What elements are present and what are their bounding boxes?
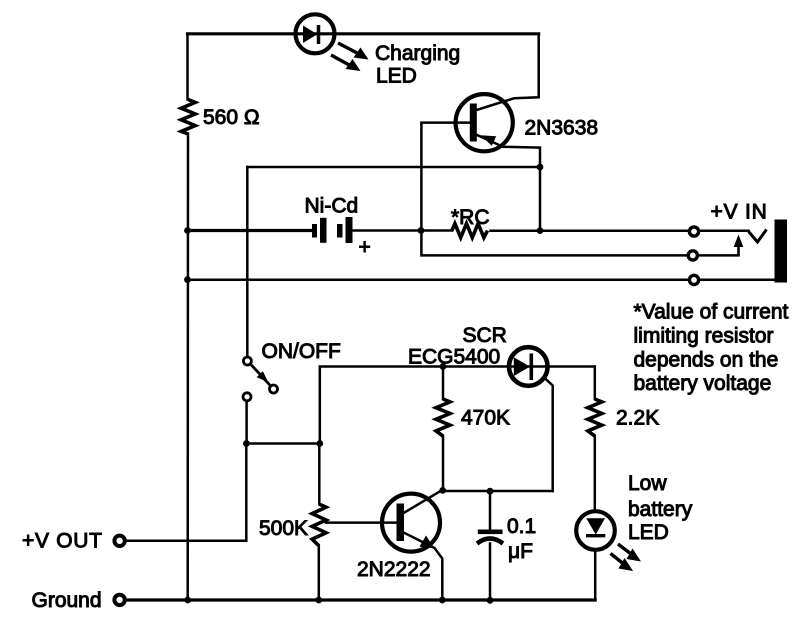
svg-text:Ni-Cd: Ni-Cd bbox=[305, 195, 359, 218]
label 470K bbox=[461, 407, 510, 430]
label *RC bbox=[451, 206, 490, 229]
wire gate rail y=491 bbox=[443, 490, 553, 493]
terminal Ground bbox=[114, 595, 124, 605]
label +V OUT bbox=[22, 530, 103, 553]
wire 500K top lead bbox=[318, 444, 321, 505]
svg-text:560 Ω: 560 Ω bbox=[203, 106, 260, 129]
wire 470K hanger riser bbox=[442, 367, 445, 400]
battery Ni-Cd cell2 short plate bbox=[337, 224, 343, 238]
svg-text:+: + bbox=[359, 236, 371, 259]
wire 2N2222 emitter diagonal and drop to ground bbox=[405, 533, 443, 600]
junction emitter drop / y167 rail bbox=[537, 164, 544, 171]
svg-text:2.2K: 2.2K bbox=[616, 407, 659, 430]
label SCR bbox=[463, 324, 507, 347]
wire 2.2K drop from SCR rail bbox=[594, 367, 597, 400]
resistor *RC zigzag bbox=[452, 224, 488, 238]
switch ON/OFF top contact bbox=[243, 357, 251, 365]
terminal +V IN top bbox=[689, 227, 698, 236]
svg-text:+V IN: +V IN bbox=[711, 201, 768, 224]
junction capacitor / gate rail bbox=[487, 488, 494, 495]
charging LED light arrow 1 bbox=[338, 43, 369, 60]
switch ON/OFF bottom contact bbox=[243, 393, 251, 401]
junction 2N2222 emitter / ground rail bbox=[439, 597, 446, 604]
svg-text:μF: μF bbox=[508, 540, 533, 563]
label Ground bbox=[32, 589, 102, 612]
wire 500K bottom lead to ground bbox=[318, 546, 321, 600]
label 560 ohm bbox=[203, 106, 260, 129]
resistor 560 ohm zigzag bbox=[181, 100, 195, 135]
label 2N2222 bbox=[357, 558, 431, 581]
wire +V OUT lead right then up to junction bbox=[127, 444, 247, 541]
charging LED diode triangle bbox=[303, 26, 317, 44]
wire 470K lower lead to gate rail bbox=[442, 436, 445, 491]
resistor 470K zigzag bbox=[436, 399, 450, 436]
transistor 2N2222 base bar bbox=[397, 504, 405, 542]
wire switch bottom contact down to +V OUT junction bbox=[245, 401, 248, 443]
wire battery feed thick segment bbox=[188, 229, 312, 232]
junction ground rail / left riser bbox=[184, 597, 191, 604]
label ECG5400 bbox=[408, 346, 500, 369]
svg-text:ON/OFF: ON/OFF bbox=[262, 340, 341, 363]
battery Ni-Cd cell1 long plate bbox=[320, 218, 327, 243]
SCR cathode bar bbox=[529, 354, 533, 381]
svg-text:*RC: *RC bbox=[451, 206, 490, 229]
wire top rail from left riser to collector drop bbox=[188, 32, 539, 35]
junction battery rail / left riser bbox=[184, 227, 191, 234]
label battery plus bbox=[359, 236, 371, 259]
battery Ni-Cd cell1 short plate bbox=[312, 224, 317, 238]
svg-text:battery: battery bbox=[628, 498, 693, 521]
note about current limiting resistor bbox=[634, 301, 789, 396]
label Low battery LED bbox=[628, 472, 693, 544]
label +V IN bbox=[711, 201, 768, 224]
svg-text:battery voltage: battery voltage bbox=[634, 372, 772, 395]
svg-text:SCR: SCR bbox=[463, 324, 507, 347]
battery Ni-Cd cell2 long plate bbox=[346, 217, 353, 243]
wire 2N2222 collector diagonal to gate rail junction bbox=[405, 490, 443, 513]
switch ON/OFF blade end contact bbox=[270, 385, 278, 393]
jack tip spring arrow (up) bbox=[734, 235, 744, 256]
label 2N3638 bbox=[525, 117, 599, 140]
svg-text:500K: 500K bbox=[259, 517, 308, 540]
svg-text:2N2222: 2N2222 bbox=[357, 558, 431, 581]
transistor 2N2222 circle bbox=[382, 494, 440, 552]
junction switch drop / +V OUT riser bbox=[243, 440, 250, 447]
SCR anode triangle bbox=[514, 357, 530, 376]
wire left riser upper (top rail to 560 ohm) bbox=[186, 34, 189, 100]
wire ground rail bbox=[127, 598, 596, 601]
wire SCR gate diagonal and drop bbox=[544, 377, 553, 491]
junction collector / gate rail bbox=[439, 487, 446, 494]
label 0.1 uF bbox=[507, 515, 536, 563]
label 2.2K bbox=[616, 407, 659, 430]
svg-text:limiting resistor: limiting resistor bbox=[634, 325, 774, 348]
svg-text:LED: LED bbox=[628, 521, 669, 544]
svg-text:depends on the: depends on the bbox=[634, 348, 779, 371]
label Charging LED bbox=[375, 42, 460, 88]
wire collector riser of 2N3638 bbox=[477, 34, 539, 110]
transistor 2N2222 emitter arrow (NPN, points out) bbox=[420, 536, 435, 549]
wire battery to RC junction bbox=[353, 229, 453, 232]
svg-text:0.1: 0.1 bbox=[507, 515, 536, 538]
wire y=443.5 link bbox=[247, 442, 320, 445]
wire 500K wiper to 2N2222 base bbox=[326, 521, 396, 524]
wire 2N3638 base drop: left then down then right to +V IN middle terminal bbox=[421, 123, 738, 256]
svg-text:+V OUT: +V OUT bbox=[22, 530, 103, 553]
transistor 2N3638 emitter arrow (PNP, points toward base) bbox=[481, 135, 497, 146]
svg-text:ECG5400: ECG5400 bbox=[408, 346, 500, 369]
resistor 2.2K zigzag bbox=[588, 399, 602, 436]
wire riser from y=167 rail down to switch top contact bbox=[246, 167, 249, 356]
wire capacitor top lead bbox=[489, 491, 492, 530]
wire riser from 443.5 up to SCR rail then right bbox=[320, 367, 595, 444]
switch ON/OFF blade with arrow bbox=[251, 365, 270, 386]
junction 470K / SCR rail bbox=[440, 363, 447, 370]
label Ni-Cd bbox=[305, 195, 359, 218]
junction base drop / battery rail bbox=[418, 227, 425, 234]
low battery LED light arrow 1 bbox=[618, 544, 641, 562]
wire capacitor bottom lead bbox=[489, 544, 492, 601]
svg-text:Low: Low bbox=[628, 472, 667, 495]
low battery LED diode triangle bbox=[586, 518, 605, 534]
svg-text:2N3638: 2N3638 bbox=[525, 117, 599, 140]
wire 2.2K to low battery LED bbox=[594, 436, 597, 510]
SCR ECG5400 circle bbox=[509, 347, 548, 386]
low battery LED cathode bar bbox=[586, 534, 605, 537]
jack spring contact V notch bbox=[749, 230, 767, 243]
terminal +V IN bottom bbox=[689, 275, 698, 284]
low battery LED light arrow 2 bbox=[611, 554, 634, 572]
label ON/OFF bbox=[262, 340, 341, 363]
wire low battery LED to ground rail bbox=[490, 551, 595, 600]
capacitor 0.1uF curved bottom plate bbox=[477, 539, 503, 544]
wire left riser mid (560 ohm down to ground rail) bbox=[186, 134, 189, 600]
wire base rail of 2N3638 at y=167 bbox=[247, 166, 540, 169]
transistor 2N3638 base bar bbox=[470, 104, 477, 142]
capacitor 0.1uF top plate bbox=[478, 530, 503, 535]
jack body black bar bbox=[775, 220, 788, 283]
wire RC to +V IN top terminal and jack tip bbox=[491, 229, 749, 232]
label 500K bbox=[259, 517, 308, 540]
svg-text:Ground: Ground bbox=[32, 589, 102, 612]
svg-text:LED: LED bbox=[376, 65, 417, 88]
low battery LED circle bbox=[576, 511, 615, 550]
charging LED circle bbox=[296, 14, 335, 53]
junction 500K riser / y443 link bbox=[316, 440, 323, 447]
svg-text:470K: 470K bbox=[461, 407, 510, 430]
transistor 2N3638 circle bbox=[456, 94, 513, 151]
svg-text:Charging: Charging bbox=[375, 42, 460, 65]
charging LED light arrow 2 bbox=[331, 55, 361, 71]
terminal +V IN middle bbox=[688, 251, 697, 260]
potentiometer 500K zigzag bbox=[312, 504, 326, 546]
svg-text:*Value of current: *Value of current bbox=[634, 301, 789, 324]
junction capacitor / ground rail bbox=[487, 597, 494, 604]
junction 500K / ground rail bbox=[315, 597, 322, 604]
wire emitter drop of 2N3638 down to battery rail bbox=[477, 135, 541, 231]
junction emitter drop / battery rail bbox=[537, 227, 544, 234]
wire bottom +V IN rail at y=279.7 bbox=[188, 278, 776, 281]
charging LED cathode bar bbox=[317, 25, 321, 44]
junction bottom +V IN rail / left riser bbox=[184, 276, 191, 283]
terminal +V OUT bbox=[114, 536, 124, 546]
